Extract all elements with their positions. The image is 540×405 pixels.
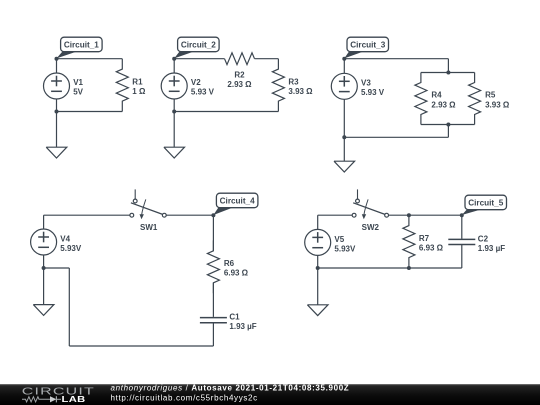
- svg-text:5.93 V: 5.93 V: [361, 88, 385, 97]
- svg-text:SW2: SW2: [362, 223, 380, 232]
- svg-text:5.93 V: 5.93 V: [191, 88, 215, 97]
- svg-text:Circuit_4: Circuit_4: [220, 196, 255, 205]
- svg-text:C2: C2: [478, 234, 489, 243]
- svg-text:3.93 Ω: 3.93 Ω: [485, 100, 510, 109]
- svg-text:6.93 Ω: 6.93 Ω: [419, 243, 444, 252]
- svg-text:Circuit_2: Circuit_2: [181, 40, 216, 49]
- svg-text:R5: R5: [485, 91, 496, 100]
- svg-text:2.93 Ω: 2.93 Ω: [431, 100, 456, 109]
- svg-text:R1: R1: [132, 77, 143, 86]
- svg-text:http://circuitlab.com/c55rbch4: http://circuitlab.com/c55rbch4yys2c: [111, 393, 258, 402]
- svg-text:6.93 Ω: 6.93 Ω: [224, 269, 249, 278]
- svg-text:SW1: SW1: [140, 223, 158, 232]
- svg-text:V1: V1: [73, 78, 83, 87]
- svg-text:5V: 5V: [73, 88, 83, 97]
- svg-text:Circuit_3: Circuit_3: [350, 40, 385, 49]
- svg-text:R4: R4: [431, 91, 442, 100]
- svg-text:V2: V2: [191, 78, 201, 87]
- svg-text:R6: R6: [224, 259, 235, 268]
- svg-text:V5: V5: [334, 235, 344, 244]
- svg-text:1 Ω: 1 Ω: [132, 87, 146, 96]
- svg-text:R3: R3: [288, 77, 299, 86]
- svg-text:Circuit_5: Circuit_5: [468, 198, 503, 207]
- svg-text:5.93V: 5.93V: [60, 244, 82, 253]
- svg-text:1.93 µF: 1.93 µF: [229, 322, 256, 331]
- svg-text:R7: R7: [419, 234, 430, 243]
- svg-text:1.93 µF: 1.93 µF: [478, 244, 505, 253]
- svg-text:2.93 Ω: 2.93 Ω: [227, 80, 252, 89]
- svg-text:5.93V: 5.93V: [334, 244, 356, 253]
- svg-text:Circuit_1: Circuit_1: [64, 40, 99, 49]
- svg-text:C1: C1: [229, 313, 240, 322]
- svg-text:anthonyrodrigues / Autosave 20: anthonyrodrigues / Autosave 2021-01-21T0…: [111, 384, 350, 393]
- svg-text:3.93 Ω: 3.93 Ω: [288, 87, 313, 96]
- svg-text:V4: V4: [60, 234, 70, 243]
- svg-text:V3: V3: [361, 78, 371, 87]
- svg-text:R2: R2: [234, 71, 245, 80]
- svg-text:LAB: LAB: [62, 395, 86, 404]
